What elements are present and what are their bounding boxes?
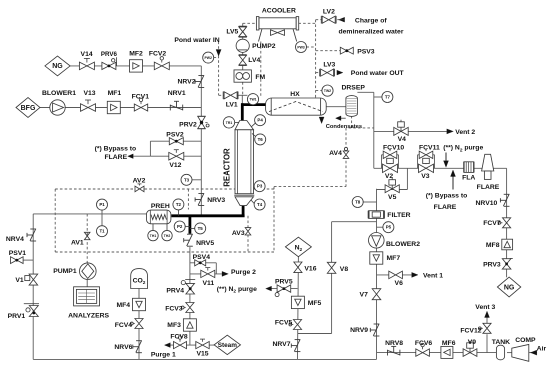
svg-text:Steam: Steam: [218, 342, 237, 349]
svg-text:NG: NG: [52, 63, 63, 70]
svg-text:NRV10: NRV10: [476, 200, 498, 207]
svg-text:FCV10: FCV10: [383, 144, 404, 151]
svg-text:P5: P5: [386, 225, 392, 230]
svg-text:V14: V14: [81, 51, 93, 58]
svg-text:V2: V2: [385, 173, 394, 180]
svg-text:MF3: MF3: [167, 322, 181, 329]
svg-text:PW2: PW2: [205, 56, 212, 60]
svg-text:FILTER: FILTER: [387, 212, 410, 219]
svg-text:Pond water OUT: Pond water OUT: [351, 70, 405, 77]
svg-text:T7: T7: [385, 95, 391, 100]
svg-text:ACOOLER: ACOOLER: [262, 7, 296, 14]
svg-text:PSV4: PSV4: [193, 254, 211, 261]
svg-text:FLARE: FLARE: [104, 154, 127, 161]
svg-text:PUMP1: PUMP1: [53, 268, 77, 275]
svg-text:(*) Bypass to: (*) Bypass to: [426, 193, 468, 200]
svg-text:TH2: TH2: [164, 234, 171, 238]
svg-text:FCV11: FCV11: [419, 144, 440, 151]
svg-text:LV4: LV4: [248, 57, 260, 64]
svg-text:FLARE: FLARE: [477, 184, 500, 191]
svg-text:Purge 2: Purge 2: [231, 269, 256, 276]
svg-text:NRV4: NRV4: [6, 236, 24, 243]
svg-text:MF8: MF8: [486, 242, 500, 249]
svg-text:NRV3: NRV3: [207, 197, 225, 204]
svg-text:MF5: MF5: [308, 300, 322, 307]
svg-text:V15: V15: [196, 351, 208, 358]
svg-text:BLOWER1: BLOWER1: [42, 90, 76, 97]
svg-text:FCV5: FCV5: [275, 319, 293, 326]
svg-text:AV3: AV3: [232, 230, 245, 237]
svg-text:V13: V13: [83, 90, 95, 97]
svg-text:MF2: MF2: [129, 50, 143, 57]
svg-text:TR1: TR1: [226, 121, 233, 125]
svg-text:P4: P4: [257, 118, 263, 123]
svg-text:PRV3: PRV3: [483, 262, 501, 269]
svg-text:PREH: PREH: [151, 203, 170, 210]
svg-text:FCV3: FCV3: [165, 306, 183, 313]
svg-text:V1: V1: [15, 277, 24, 284]
svg-text:Vent 2: Vent 2: [455, 129, 475, 136]
svg-text:MF7: MF7: [387, 255, 401, 262]
svg-text:FCV2: FCV2: [149, 50, 167, 57]
svg-text:DRSEP: DRSEP: [341, 85, 365, 92]
svg-text:BLOWER2: BLOWER2: [386, 241, 420, 248]
svg-text:LV3: LV3: [323, 62, 335, 69]
svg-text:PRV2: PRV2: [179, 122, 197, 129]
svg-text:V8: V8: [340, 266, 349, 273]
svg-text:REACTOR: REACTOR: [222, 148, 231, 187]
svg-text:V9: V9: [468, 339, 477, 346]
svg-text:BFG: BFG: [21, 105, 36, 112]
svg-text:NRV5: NRV5: [196, 240, 214, 247]
svg-text:Purge 1: Purge 1: [151, 351, 176, 358]
svg-text:MF6: MF6: [442, 340, 456, 347]
svg-text:Condensates: Condensates: [326, 124, 362, 130]
svg-text:AV2: AV2: [133, 178, 146, 185]
svg-text:TW1: TW1: [249, 98, 256, 102]
svg-text:T1: T1: [99, 229, 105, 234]
svg-text:demineralized water: demineralized water: [339, 29, 404, 36]
svg-text:T8: T8: [355, 200, 361, 205]
svg-text:AV4: AV4: [329, 150, 342, 157]
svg-text:V6: V6: [395, 280, 404, 287]
svg-text:Vent 1: Vent 1: [423, 273, 443, 280]
svg-text:TH1: TH1: [150, 234, 157, 238]
svg-text:T6: T6: [258, 137, 264, 142]
svg-text:FCV7: FCV7: [483, 220, 501, 227]
svg-text:T5: T5: [198, 226, 204, 231]
svg-text:NRV7: NRV7: [272, 341, 290, 348]
svg-text:FCV4: FCV4: [115, 322, 133, 329]
svg-text:LV5: LV5: [226, 29, 238, 36]
svg-text:NRV8: NRV8: [385, 340, 403, 347]
svg-text:FCV6: FCV6: [415, 340, 433, 347]
svg-text:V12: V12: [169, 162, 181, 169]
svg-text:COMP: COMP: [515, 337, 536, 344]
svg-text:(*) Bypass to: (*) Bypass to: [95, 145, 137, 152]
svg-text:V4: V4: [398, 136, 407, 143]
svg-text:NRV1: NRV1: [168, 90, 186, 97]
svg-text:PRV6: PRV6: [101, 51, 118, 58]
svg-text:NRV6: NRV6: [114, 344, 132, 351]
svg-text:ANALYZERS: ANALYZERS: [68, 313, 109, 320]
svg-text:MF1: MF1: [108, 90, 122, 97]
svg-text:MF4: MF4: [116, 302, 130, 309]
svg-text:PRV5: PRV5: [275, 278, 293, 285]
svg-text:PSV3: PSV3: [357, 48, 375, 55]
svg-text:Air: Air: [537, 346, 547, 353]
svg-text:NG: NG: [504, 284, 515, 291]
svg-text:P1: P1: [99, 202, 105, 207]
svg-text:LV2: LV2: [323, 8, 335, 15]
svg-text:HX: HX: [290, 91, 300, 98]
svg-text:TANK: TANK: [492, 339, 510, 346]
svg-text:TW2: TW2: [324, 89, 331, 93]
svg-text:FM: FM: [255, 74, 265, 81]
svg-text:FLA: FLA: [462, 174, 475, 181]
svg-text:T2: T2: [176, 202, 182, 207]
svg-text:P2: P2: [177, 224, 183, 229]
svg-text:V16: V16: [304, 265, 316, 272]
svg-text:Charge of: Charge of: [355, 17, 387, 24]
svg-text:NRV9: NRV9: [350, 327, 368, 334]
svg-text:PW3: PW3: [297, 46, 304, 50]
svg-text:PRV1: PRV1: [8, 313, 26, 320]
svg-text:V7: V7: [360, 292, 369, 299]
svg-text:AV1: AV1: [71, 239, 84, 246]
svg-text:PSV1: PSV1: [9, 250, 27, 257]
svg-text:PSV2: PSV2: [166, 132, 184, 139]
svg-text:NRV2: NRV2: [177, 78, 195, 85]
svg-text:T3: T3: [184, 177, 190, 182]
svg-text:V5: V5: [388, 194, 397, 201]
svg-text:V11: V11: [202, 280, 214, 287]
svg-text:P3: P3: [257, 184, 263, 189]
svg-text:Pond water IN: Pond water IN: [174, 37, 219, 44]
svg-text:FCV1: FCV1: [132, 93, 150, 100]
svg-text:FLARE: FLARE: [434, 204, 457, 211]
svg-text:LV1: LV1: [226, 101, 238, 108]
svg-text:PRV4: PRV4: [166, 287, 184, 294]
svg-text:Vent 3: Vent 3: [475, 304, 495, 311]
svg-text:V3: V3: [421, 173, 430, 180]
svg-text:PUMP2: PUMP2: [252, 43, 276, 50]
svg-text:T4: T4: [257, 202, 263, 207]
svg-text:FCV8: FCV8: [170, 334, 188, 341]
svg-text:FCV12: FCV12: [460, 327, 481, 334]
